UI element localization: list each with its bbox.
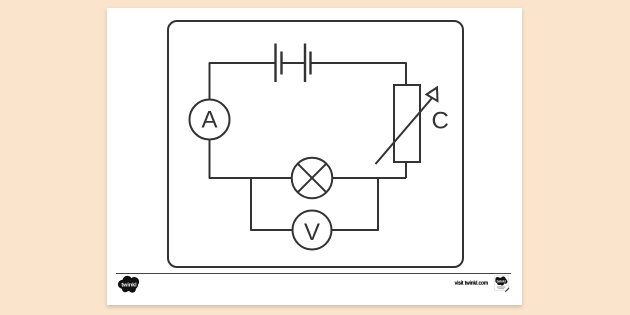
svg-text:twinkl: twinkl: [121, 283, 137, 289]
variable resistor arrowhead: [427, 88, 438, 102]
wire top-left: [210, 63, 276, 100]
wire top-right: [311, 63, 407, 85]
svg-text:twinkl: twinkl: [497, 279, 506, 283]
svg-text:C: C: [432, 108, 449, 135]
wire left-bottom: [210, 140, 292, 179]
lamp L1: [292, 158, 333, 199]
wire voltmeter branch left: [251, 177, 293, 230]
wire resistor-bottom: [405, 162, 407, 178]
variable resistor body: [394, 85, 420, 162]
wire voltmeter branch right: [332, 177, 379, 230]
voltmeter V1: [293, 211, 332, 250]
battery cell 1 short plate: [280, 52, 282, 75]
battery cell 1 long plate: [274, 44, 276, 83]
battery cell 2 short plate: [309, 52, 311, 75]
svg-text:V: V: [304, 219, 320, 246]
battery cell 2 long plate: [304, 44, 306, 83]
ammeter A1: [190, 100, 230, 140]
circuit frame: [168, 21, 463, 267]
twinkl logo: [118, 276, 139, 293]
wire bottom-right: [332, 177, 406, 179]
QR badge: [494, 275, 509, 292]
svg-text:A: A: [201, 107, 217, 134]
visit twinkl.com text: [455, 281, 489, 287]
footer separator: [116, 273, 511, 275]
svg-text:visit twinkl.com: visit twinkl.com: [455, 281, 488, 287]
variable resistor arrow line: [376, 98, 433, 164]
wire between cells: [282, 62, 306, 64]
